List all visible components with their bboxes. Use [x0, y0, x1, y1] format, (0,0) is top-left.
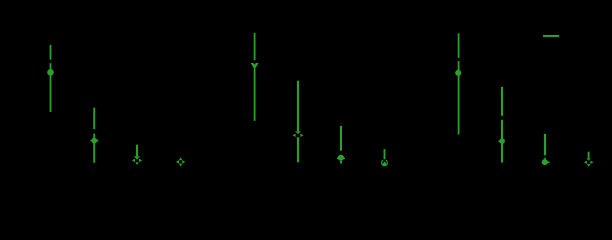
point 6 caret right	[300, 134, 303, 137]
point 8 lolims arrow stem	[384, 149, 386, 159]
point 7 error bar upper segment	[340, 126, 342, 151]
point 11 marker top stub	[544, 158, 546, 160]
point 10 error bar lower segment	[501, 120, 503, 163]
point 1 error bar lower segment	[50, 63, 52, 112]
point 10 xerr left stub	[498, 140, 500, 142]
point 3 caret down	[135, 162, 138, 165]
point 10 error bar upper segment	[501, 87, 503, 116]
point 9 circle marker	[455, 70, 461, 76]
point 5 uplims caret-down arrowhead	[251, 63, 259, 70]
point 4 caret up	[179, 157, 182, 160]
point 3 uplims arrow stem	[136, 145, 138, 157]
point 6 error bar upper segment	[297, 81, 299, 132]
point 2 error bar lower segment	[93, 134, 95, 163]
point 2 xerr cap line	[90, 140, 98, 142]
point 4 caret left	[176, 160, 179, 164]
point 2 error bar upper segment	[93, 108, 95, 130]
legend line sample dash	[543, 35, 559, 37]
point 7 error bar lower stub	[340, 161, 342, 164]
point 4 caret down	[179, 164, 182, 167]
point 12 caret left	[584, 161, 587, 164]
point 12 uplims arrow stem	[588, 152, 590, 159]
point 6 caret down	[296, 137, 299, 140]
point 6 uplims caret-down arrowhead	[295, 131, 301, 134]
point 11 error bar segment	[544, 134, 546, 155]
point 8 lolims caret-up inside ring	[382, 161, 387, 165]
point 10 circle marker	[499, 138, 505, 144]
point 7 xerr cap line	[337, 157, 345, 159]
point 11 circle marker	[542, 159, 548, 165]
point 1 error bar upper segment	[50, 45, 52, 60]
point 9 error bar upper segment	[458, 33, 460, 58]
point 7 circle marker	[338, 155, 344, 161]
point 12 caret down	[587, 164, 590, 167]
point 5 arrowhead notch (background cutout)	[253, 63, 256, 65]
point 12 caret right	[590, 161, 593, 164]
point 5 error bar lower segment	[254, 69, 256, 121]
point 1 circle marker	[47, 69, 54, 76]
point 12 uplims caret-down arrowhead	[586, 158, 591, 161]
point 8 open circle marker ring	[382, 160, 388, 165]
point 3 caret right	[139, 159, 142, 162]
point 4 caret right	[182, 160, 185, 164]
point 11 xerr right stub	[545, 161, 550, 163]
point 2 circle marker	[92, 138, 98, 144]
point 3 uplims caret-down arrowhead	[134, 156, 141, 160]
point 9 error bar lower segment	[458, 61, 460, 134]
point 3 caret left	[132, 159, 135, 162]
point 6 error bar lower segment	[297, 137, 299, 162]
point 6 caret left	[293, 134, 296, 137]
point 5 error bar upper segment	[254, 33, 256, 60]
